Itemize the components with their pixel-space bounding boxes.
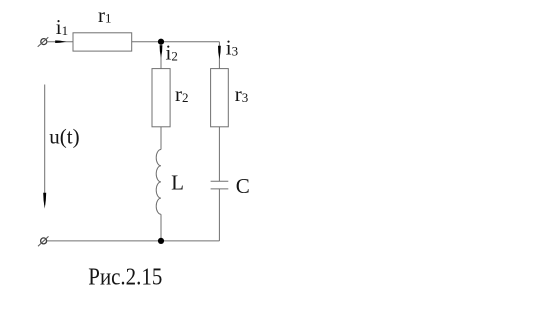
terminal top-left (41, 39, 47, 45)
resistor R3 (211, 69, 229, 127)
wire r3 to capacitor (218, 127, 220, 182)
terminal bottom-left (41, 238, 47, 244)
resistor R1 (73, 33, 132, 51)
inductor L (156, 150, 161, 215)
wire capacitor to bottom (218, 189, 220, 241)
svg-text:Рис.2.15: Рис.2.15 (88, 264, 162, 290)
node dot top (158, 39, 164, 45)
svg-text:C: C (236, 174, 250, 198)
resistor R2 (152, 69, 170, 127)
wire r1 to top-right corner (132, 41, 220, 43)
svg-text:u(t): u(t) (49, 125, 79, 149)
wire top corner down to r3 (218, 42, 220, 69)
u(t) arrow line (44, 85, 46, 206)
wire terminal to resistor r1 (46, 41, 73, 43)
capacitor C plates (211, 180, 229, 182)
node dot bottom (158, 238, 164, 244)
bottom wire (46, 240, 220, 242)
wire r2 to coil (160, 127, 162, 150)
arrow u(t) (43, 193, 46, 209)
svg-text:L: L (171, 170, 184, 194)
arrow i1 (55, 40, 66, 43)
arrow i3 (218, 46, 221, 60)
arrow i2 (160, 45, 163, 57)
wire coil to bottom (160, 214, 162, 241)
wire node to r2 (160, 42, 162, 69)
